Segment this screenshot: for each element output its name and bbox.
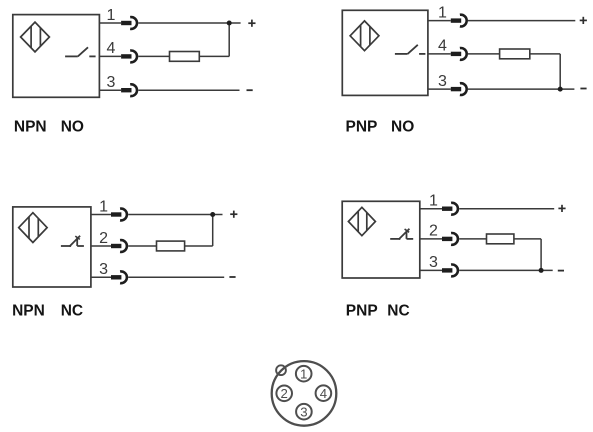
svg-text:NO: NO <box>61 118 84 135</box>
svg-text:NO: NO <box>391 118 414 135</box>
svg-text:NPN: NPN <box>12 302 45 319</box>
svg-text:1: 1 <box>107 7 116 24</box>
svg-text:1: 1 <box>99 198 108 215</box>
svg-text:2: 2 <box>281 386 288 401</box>
svg-text:3: 3 <box>429 254 438 271</box>
svg-text:NPN: NPN <box>14 118 47 135</box>
svg-text:4: 4 <box>438 38 447 55</box>
svg-text:3: 3 <box>107 74 116 91</box>
svg-text:3: 3 <box>438 73 447 90</box>
svg-text:3: 3 <box>99 261 108 278</box>
svg-text:1: 1 <box>438 4 447 21</box>
svg-text:NC: NC <box>61 302 83 319</box>
svg-text:2: 2 <box>99 230 108 247</box>
svg-text:2: 2 <box>429 223 438 240</box>
svg-text:3: 3 <box>300 404 307 419</box>
svg-text:1: 1 <box>429 193 438 210</box>
svg-text:PNP: PNP <box>346 302 378 319</box>
svg-text:NC: NC <box>387 302 409 319</box>
svg-text:4: 4 <box>320 386 327 401</box>
svg-text:4: 4 <box>107 40 116 57</box>
svg-text:PNP: PNP <box>346 118 378 135</box>
svg-text:1: 1 <box>300 366 307 381</box>
